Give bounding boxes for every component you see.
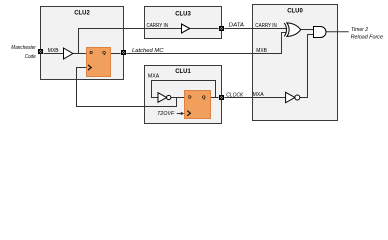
- svg-text:CARRY IN: CARRY IN: [255, 23, 277, 29]
- wire CLU1 feedback loop MXA: [152, 81, 216, 98]
- inverter in CLU1: [158, 93, 171, 103]
- svg-text:CARRY IN: CARRY IN: [147, 23, 169, 29]
- buffer in CLU3: [182, 24, 190, 33]
- arrow T2OVF to clock input: [177, 112, 185, 116]
- block CLU1: [145, 66, 222, 124]
- buffer in CLU2: [64, 48, 73, 59]
- svg-text:Latched MC: Latched MC: [132, 48, 164, 54]
- svg-text:Q: Q: [202, 94, 206, 99]
- wire CLU3 buffer to DATA pin: [190, 28, 219, 30]
- flip-flop in CLU1: [185, 91, 211, 119]
- xor gate in CLU0: [284, 23, 300, 37]
- wire Q output to Latched MC pin: [111, 53, 121, 55]
- pin CLOCK output: [220, 96, 224, 100]
- svg-text:CLU1: CLU1: [175, 68, 191, 75]
- label CARRY IN in CLU0: [255, 23, 277, 29]
- wire buffer output to D input: [73, 53, 87, 55]
- svg-text:Reload Force: Reload Force: [351, 35, 384, 41]
- wire DATA to CLU0 XOR top input: [225, 28, 287, 30]
- svg-text:MXB: MXB: [256, 48, 267, 54]
- wire CLU0 inverter output riser to AND input: [300, 35, 314, 98]
- svg-text:Manchester: Manchester: [11, 45, 36, 51]
- svg-text:CLU3: CLU3: [175, 10, 191, 17]
- svg-text:DATA: DATA: [229, 22, 244, 28]
- flip-flop in CLU2: [87, 48, 111, 77]
- wire XOR output to AND input: [301, 29, 314, 31]
- inverter in CLU0: [286, 92, 300, 102]
- svg-text:CLOCK: CLOCK: [226, 92, 244, 98]
- and gate in CLU0: [314, 27, 327, 38]
- svg-text:Code: Code: [25, 54, 37, 60]
- wire Latched MC to CLU0 MXB riser: [127, 33, 287, 54]
- block CLU2: [41, 7, 124, 80]
- block CLU3: [145, 7, 222, 39]
- svg-text:MXB: MXB: [48, 48, 59, 54]
- wire CLU1 Q output to CLOCK pin: [211, 97, 219, 99]
- wire clock distribution to CLU2 clock input: [77, 68, 177, 107]
- pin Latched MC output: [122, 51, 126, 55]
- pin DATA output: [220, 27, 224, 31]
- label Manchester Code: [11, 45, 36, 60]
- label CARRY IN in CLU3: [147, 23, 169, 29]
- label Timer 2 Reload Force: [351, 27, 384, 41]
- svg-text:MXA: MXA: [148, 73, 160, 79]
- block CLU0: [253, 5, 338, 121]
- wire branch up to CLU3 carry in: [79, 29, 182, 54]
- pin Manchester Code input: [39, 50, 43, 54]
- svg-text:T2OVF: T2OVF: [157, 111, 174, 117]
- svg-text:Timer 2: Timer 2: [351, 27, 369, 33]
- wire CLU1 inverter output to D input: [171, 97, 185, 99]
- svg-text:CLU2: CLU2: [74, 9, 90, 16]
- wire MXB pin to buffer: [44, 53, 64, 55]
- svg-text:MXA: MXA: [253, 92, 265, 98]
- wire AND output to Timer 2 Reload Force: [326, 31, 349, 33]
- svg-text:Q: Q: [102, 50, 106, 55]
- wire CLOCK pin to CLU0 inverter: [225, 97, 286, 99]
- svg-text:CLU0: CLU0: [287, 7, 303, 14]
